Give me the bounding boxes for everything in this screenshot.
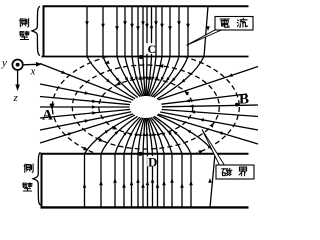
field arrow outer bottom bbox=[83, 147, 88, 151]
svg-text:D: D bbox=[148, 155, 157, 170]
current line top T2 with arrows bbox=[101, 6, 138, 97]
current line bottom B13 with arrows bbox=[153, 117, 184, 207]
field arrow middle bottom-left bbox=[98, 138, 103, 142]
current line bottom B8 with arrows bbox=[145, 118, 149, 207]
current line left L7 with arrow bbox=[40, 114, 133, 143]
axis x arrow bbox=[23, 63, 38, 66]
white backing for label C bbox=[145, 43, 154, 54]
jikai text 界 bbox=[239, 167, 246, 176]
white background bbox=[0, 0, 260, 215]
field arrow outer bottom-right bbox=[198, 150, 203, 154]
svg-text:B: B bbox=[239, 92, 249, 108]
current line top T1 with arrows bbox=[85, 6, 135, 99]
current line left L4 with arrow bbox=[40, 105, 130, 109]
jikai (magnetic field) callout box bbox=[216, 165, 254, 179]
current line top T3 with arrows bbox=[115, 6, 140, 97]
current line bottom B9 with arrows bbox=[147, 118, 154, 207]
brace top wall bbox=[32, 6, 40, 55]
current line top T5 with arrows bbox=[130, 6, 143, 96]
current line top T7 with arrows bbox=[141, 6, 145, 96]
current line top T12 with arrows bbox=[151, 6, 172, 96]
magnetic field ellipse inner bbox=[99, 79, 193, 135]
current line top T13 with arrows bbox=[152, 6, 181, 97]
current line bottom B6 with arrows bbox=[136, 118, 144, 207]
current line left L3 with arrow bbox=[40, 97, 130, 105]
field arrow middle top bbox=[159, 64, 164, 68]
current line bottom B5 with arrows bbox=[130, 118, 143, 208]
field arrow inner bottom-left bbox=[112, 126, 117, 130]
jikai text 磁 bbox=[222, 168, 232, 175]
field arrow outer left (point A) bbox=[49, 104, 54, 111]
current line right R1 with arrow bbox=[158, 67, 258, 100]
current line bottom B14 with arrows bbox=[154, 116, 193, 207]
wall label bottom (soku) bbox=[24, 164, 33, 172]
denryu text 電 bbox=[220, 19, 229, 27]
current line top T9 with arrows bbox=[147, 6, 153, 96]
current line bottom B11 with arrows bbox=[149, 118, 165, 208]
denryu (current) callout leader bbox=[187, 29, 222, 46]
wall label bottom (heki) bbox=[23, 183, 32, 191]
white backing for label D bbox=[147, 156, 157, 167]
current line top T15 with arrows bbox=[157, 6, 210, 99]
current line top T4 with arrows bbox=[123, 6, 142, 96]
field arrow inner top-left bbox=[116, 82, 121, 86]
current line bottom B7 with arrows bbox=[141, 118, 145, 207]
current line right R2 with arrow bbox=[161, 94, 247, 104]
current line top T10 with arrows bbox=[148, 6, 158, 96]
junction dot D (bottom wall) bbox=[138, 152, 142, 156]
current line right R5 with arrow bbox=[160, 112, 258, 130]
current line bottom B2 with arrows bbox=[99, 116, 137, 207]
current line bottom B10 with arrows bbox=[148, 118, 159, 207]
axis z arrow bbox=[17, 71, 19, 86]
current line top T11 with arrows bbox=[149, 6, 164, 96]
svg-text:z: z bbox=[13, 92, 19, 104]
wall label top (soku) bbox=[20, 19, 29, 27]
current line left L1 with arrow bbox=[40, 64, 133, 101]
field arrow inner right bbox=[184, 91, 189, 96]
current line bottom B4 with arrows bbox=[122, 118, 141, 208]
top side wall outline bbox=[44, 6, 249, 56]
current line top T14 with arrows bbox=[154, 6, 190, 97]
junction dot C (top wall) bbox=[139, 55, 143, 59]
current line right R3 with arrow bbox=[162, 105, 258, 109]
current line bottom B1 with arrows bbox=[83, 115, 135, 207]
wall label top (heki) bbox=[20, 31, 29, 39]
current line right R6 with arrow bbox=[158, 114, 258, 144]
current line right R4 with arrow bbox=[162, 110, 258, 117]
bottom side wall outline bbox=[42, 154, 249, 208]
current line bottom B3 with arrows bbox=[113, 117, 140, 207]
brace bottom wall bbox=[33, 153, 41, 206]
field arrow middle right bbox=[210, 123, 214, 128]
axis y symbol (out of page) bbox=[12, 59, 22, 69]
current line left L2 with arrow bbox=[40, 84, 131, 102]
current line top T8 with arrows bbox=[145, 6, 149, 96]
magnetic field ellipse outer bbox=[52, 52, 239, 162]
svg-text:x: x bbox=[30, 66, 36, 78]
svg-text:y: y bbox=[1, 57, 7, 69]
jikai (magnetic field) callout leader bbox=[202, 130, 225, 166]
current line bottom B12 with arrows bbox=[151, 117, 174, 207]
denryu text 流 bbox=[237, 18, 247, 27]
current line top T6 with arrows bbox=[136, 6, 144, 96]
junction dot B (outer ellipse right) bbox=[235, 103, 239, 107]
field arrow outer top-left bbox=[105, 61, 110, 64]
svg-text:A: A bbox=[42, 108, 53, 124]
current line left L6 with arrow bbox=[40, 112, 131, 130]
svg-text:C: C bbox=[148, 42, 157, 56]
current line left L5 with arrow bbox=[40, 109, 130, 118]
current line bottom B15 with arrows bbox=[157, 115, 215, 207]
magnetic field ellipse middle bbox=[72, 65, 219, 149]
denryu (current) callout box bbox=[215, 17, 253, 31]
